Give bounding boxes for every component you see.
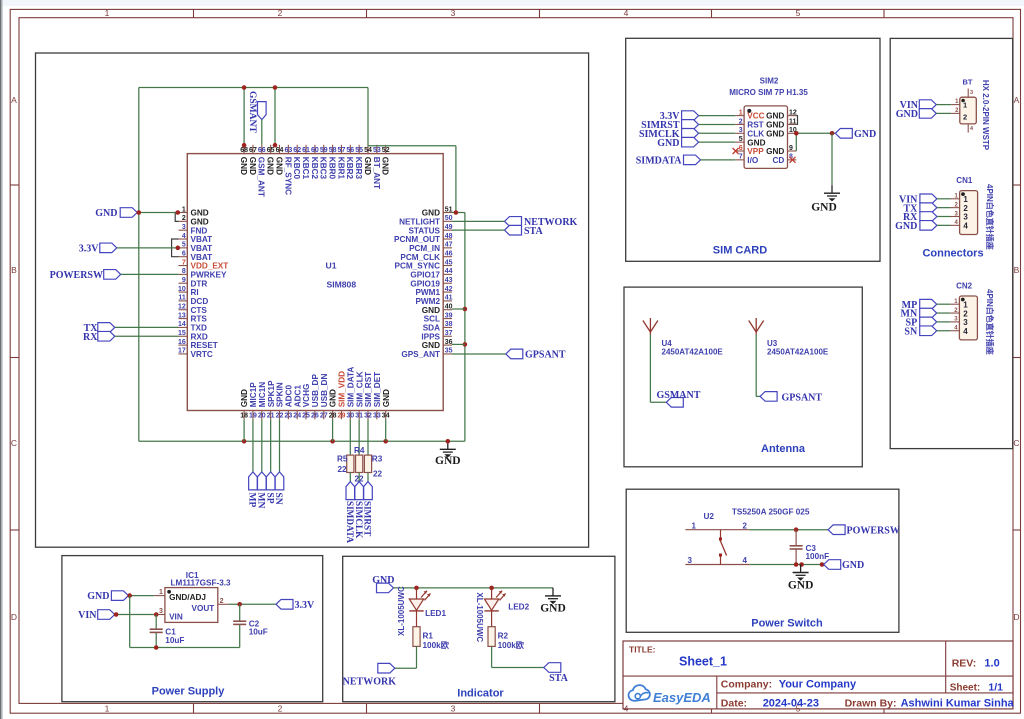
wire U3 to GPSANT flag — [756, 335, 760, 397]
svg-text:GND: GND — [248, 157, 257, 175]
wire U1 pin 51 to right vertical — [452, 212, 465, 214]
wire SIM2 pin 9 bend — [795, 133, 797, 151]
svg-text:KBC0: KBC0 — [292, 157, 301, 180]
wire pin 32 to resistor — [367, 419, 369, 455]
svg-text:VBAT: VBAT — [191, 235, 213, 244]
svg-text:4: 4 — [182, 233, 186, 240]
IC1 pin 1 GND/ADJ — [154, 589, 206, 602]
svg-text:STA: STA — [549, 673, 568, 684]
svg-text:100k欧: 100k欧 — [498, 640, 525, 650]
svg-text:VBAT: VBAT — [191, 253, 213, 262]
U1 pin 35 GPS_ANT — [401, 348, 452, 359]
junction LED2 top — [489, 586, 494, 591]
svg-text:GND: GND — [372, 575, 394, 586]
net flag GND SIM left — [657, 137, 698, 148]
wire MN to CN2 pin 2 — [937, 312, 951, 314]
wire pin 49 to STA flag — [452, 229, 505, 231]
section title Power Switch — [751, 618, 823, 630]
svg-text:B: B — [1014, 265, 1020, 275]
svg-text:Sheet:: Sheet: — [950, 683, 981, 694]
svg-text:3.3V: 3.3V — [295, 600, 316, 611]
wire pin 22 to SN flag — [279, 419, 281, 472]
U1 pin 59 KBC3 — [319, 145, 328, 180]
svg-text:MICRO SIM 7P H1.35: MICRO SIM 7P H1.35 — [729, 88, 808, 97]
svg-text:SN: SN — [273, 493, 283, 505]
svg-text:54: 54 — [364, 147, 372, 154]
switch U2 reference designator — [704, 512, 715, 521]
net flag GND BT — [896, 109, 937, 120]
svg-text:CN1: CN1 — [956, 176, 973, 185]
svg-text:29: 29 — [338, 413, 346, 420]
svg-text:2450AT42A100E: 2450AT42A100E — [767, 348, 829, 357]
svg-text:68: 68 — [240, 147, 248, 154]
svg-text:12: 12 — [789, 109, 797, 116]
LED LED1 — [397, 586, 446, 636]
svg-text:GPIO17: GPIO17 — [410, 270, 440, 279]
junction GND bus pin 28 — [330, 439, 335, 444]
svg-text:Power Switch: Power Switch — [751, 618, 823, 630]
SIM2 pin 9 GND — [766, 145, 796, 156]
svg-text:GND: GND — [766, 112, 784, 121]
svg-text:1: 1 — [182, 206, 186, 213]
resistor R5 — [337, 455, 354, 475]
main module section box — [36, 53, 589, 547]
svg-text:100nF: 100nF — [806, 552, 830, 561]
U1 pin 9 DTR — [179, 277, 208, 288]
svg-text:40: 40 — [445, 304, 453, 311]
resistor R1 — [413, 627, 450, 650]
svg-text:6: 6 — [739, 145, 743, 152]
net flag GND indicator — [372, 575, 394, 593]
svg-text:1: 1 — [159, 589, 163, 596]
svg-text:CLK: CLK — [747, 129, 764, 138]
U1 pin 44 GPIO17 — [410, 268, 452, 279]
svg-text:44: 44 — [445, 268, 453, 275]
svg-text:2450AT42A100E: 2450AT42A100E — [662, 348, 724, 357]
svg-text:GPSANT: GPSANT — [782, 392, 823, 403]
antenna U3 — [749, 318, 764, 335]
wire resistor R3 to SIMRST flag — [367, 473, 369, 482]
svg-text:9: 9 — [789, 145, 793, 152]
svg-text:22: 22 — [276, 413, 284, 420]
svg-text:SIM_CLK: SIM_CLK — [355, 371, 364, 407]
frame column numbers bottom — [105, 704, 801, 714]
wire GND flag to IC1 pin 1 — [128, 595, 153, 597]
svg-text:5: 5 — [182, 242, 186, 249]
svg-text:2: 2 — [963, 309, 968, 318]
svg-text:36: 36 — [445, 339, 453, 346]
junction C1 bottom — [154, 645, 159, 650]
SIM2 value MICRO SIM 7P H1.35 — [729, 88, 808, 97]
svg-text:4PIN白色直针插座: 4PIN白色直针插座 — [985, 289, 995, 355]
svg-text:Ashwini Kumar Sinha: Ashwini Kumar Sinha — [901, 697, 1015, 709]
junction LED1 top — [414, 586, 419, 591]
svg-text:3: 3 — [739, 127, 743, 134]
title block Sheet number — [950, 682, 1003, 694]
junction C2 top — [237, 602, 242, 607]
svg-text:GND: GND — [422, 341, 440, 350]
U1 pin 17 VRTC — [178, 348, 213, 359]
CN1 pin 4 stub — [951, 220, 960, 226]
wire pin 19 to MP flag — [252, 419, 254, 472]
svg-text:3.3V: 3.3V — [79, 243, 100, 254]
junction SIM GND flag — [830, 131, 835, 136]
svg-text:GND: GND — [842, 560, 864, 571]
capacitor C2 — [233, 604, 268, 647]
svg-text:D: D — [11, 612, 17, 622]
U1 pin 30 SIM_DATA — [346, 367, 355, 420]
IC1 value LM1117GSF-3.3 — [171, 578, 232, 587]
svg-text:42: 42 — [445, 286, 453, 293]
BT mounting pins — [968, 89, 974, 133]
wire GND right vertical — [464, 213, 466, 442]
svg-text:TS5250A 250GF 025: TS5250A 250GF 025 — [732, 508, 810, 517]
svg-text:9: 9 — [182, 277, 186, 284]
svg-text:GND: GND — [854, 129, 876, 140]
svg-text:Company:: Company: — [721, 679, 772, 691]
svg-text:25: 25 — [302, 413, 310, 420]
U1 pin 55 KBR3 — [354, 145, 363, 180]
wire pin 34 to bus — [385, 419, 387, 441]
net flag MP CN2 — [902, 299, 937, 310]
net flag SP CN2 — [906, 317, 937, 328]
junction GND bus pin 34 — [383, 439, 388, 444]
frame row letters left — [11, 95, 17, 622]
svg-text:SN: SN — [904, 326, 918, 337]
svg-text:4: 4 — [624, 704, 629, 714]
svg-text:27: 27 — [320, 413, 328, 420]
svg-text:GND: GND — [788, 580, 814, 592]
U1 pin 37 IPPS — [421, 330, 452, 341]
svg-text:1/1: 1/1 — [988, 682, 1003, 694]
svg-text:TXD: TXD — [191, 324, 207, 333]
svg-text:GND: GND — [329, 389, 338, 407]
title block TITLE label — [629, 645, 656, 655]
junction VIN flag PS — [114, 612, 119, 617]
net flag 3.3V power supply — [276, 600, 315, 611]
Power Switch section box — [626, 489, 899, 632]
U1 pin 41 PWM2 — [415, 295, 452, 306]
svg-text:R3: R3 — [372, 455, 383, 464]
svg-text:GPS_ANT: GPS_ANT — [401, 350, 440, 359]
svg-text:17: 17 — [178, 348, 186, 355]
svg-text:2: 2 — [220, 598, 224, 605]
svg-text:GND: GND — [422, 306, 440, 315]
bracket joining U1 pins 1-2 — [175, 213, 178, 222]
net flag SIMRST — [363, 482, 373, 537]
svg-text:BT: BT — [963, 78, 973, 87]
section title Indicator — [457, 688, 504, 700]
CN2 reference designator — [956, 282, 973, 291]
title block REV — [952, 658, 1000, 670]
wire 3.3V to SIM2 pin 1 — [699, 115, 736, 117]
svg-text:1: 1 — [963, 300, 968, 309]
svg-text:A: A — [1014, 95, 1020, 105]
BT pin 2 stub — [951, 108, 960, 114]
LED LED2 — [475, 588, 530, 643]
bracket joining SIM2 pins 12-11 — [796, 116, 797, 125]
wire TX flag to pin 14 — [115, 326, 179, 328]
BT reference designator — [963, 78, 973, 87]
junction GND flag PS — [127, 593, 132, 598]
svg-text:11: 11 — [178, 295, 186, 302]
U1 pin 65 GND — [266, 145, 275, 175]
BT value HX 2.0-2PIN WSTP — [981, 80, 990, 151]
svg-text:GND: GND — [382, 389, 391, 407]
switch U2 — [685, 521, 749, 565]
svg-text:Your Company: Your Company — [779, 679, 857, 691]
svg-text:24: 24 — [293, 413, 301, 420]
junction pin 5 — [176, 246, 181, 251]
U1 pin 40 GND — [422, 304, 453, 315]
svg-text:26: 26 — [311, 413, 319, 420]
wire pin 36 stub join — [452, 343, 465, 345]
U1 pin 67 GND — [248, 145, 257, 175]
U1 pin 22 SPKIN — [276, 382, 285, 420]
svg-text:SPK1P: SPK1P — [267, 380, 276, 407]
svg-text:SIM_DATA: SIM_DATA — [346, 367, 355, 408]
U1 pin 51 GND — [422, 206, 453, 217]
svg-text:SP: SP — [264, 493, 274, 504]
net flag GPSANT right — [506, 349, 566, 360]
svg-text:3: 3 — [688, 556, 693, 565]
EasyEDA logo — [629, 685, 711, 705]
svg-text:PCM_IN: PCM_IN — [409, 244, 440, 253]
svg-text:TITLE:: TITLE: — [629, 645, 656, 655]
U1 pin 3 FND — [179, 224, 208, 235]
wire rail to ground indicator — [552, 587, 554, 589]
svg-text:66: 66 — [258, 147, 266, 154]
net flag GND switch — [824, 560, 865, 571]
svg-text:FND: FND — [191, 226, 208, 235]
U1 pin 27 USB_DN — [320, 374, 329, 420]
net flag SN — [273, 472, 284, 505]
net flag GND SIM right — [835, 129, 876, 140]
U1 pin 63 RF_SYNC — [283, 145, 292, 195]
wire GND left vertical — [138, 88, 140, 442]
net flag RX CN1 — [903, 212, 937, 223]
svg-text:59: 59 — [320, 147, 328, 154]
U1 pin 1 GND — [179, 206, 209, 217]
U1 pin 57 KBR1 — [336, 145, 345, 180]
U1 pin 52 GND — [381, 145, 390, 175]
svg-text:GND: GND — [766, 147, 784, 156]
svg-text:KBR3: KBR3 — [354, 157, 363, 180]
svg-text:VIN: VIN — [78, 610, 97, 621]
U1 pin 10 RI — [178, 286, 199, 297]
wire drop to U1 pin 65 — [274, 88, 276, 145]
svg-text:KBC3: KBC3 — [319, 157, 328, 180]
svg-text:1: 1 — [963, 195, 968, 204]
svg-text:100k欧: 100k欧 — [423, 640, 450, 650]
svg-text:SIMDATA: SIMDATA — [636, 155, 683, 166]
net flag SN CN2 — [904, 326, 936, 337]
svg-text:B: B — [11, 265, 17, 275]
svg-text:C: C — [11, 438, 17, 448]
svg-text:41: 41 — [445, 295, 453, 302]
svg-text:ADC0: ADC0 — [284, 385, 293, 408]
svg-text:55: 55 — [355, 147, 363, 154]
svg-text:1: 1 — [105, 8, 110, 18]
CN1 pin 2 stub — [951, 202, 960, 208]
U3 reference designator — [767, 339, 778, 348]
svg-text:LED2: LED2 — [508, 603, 529, 612]
CN2 pin 1 stub — [950, 299, 959, 305]
net flag 3.3V left — [79, 243, 117, 254]
U1 pin 42 PWM1 — [415, 286, 452, 297]
svg-text:STATUS: STATUS — [408, 226, 440, 235]
svg-text:19: 19 — [249, 413, 257, 420]
svg-text:R1: R1 — [423, 632, 434, 641]
svg-text:65: 65 — [267, 147, 275, 154]
svg-text:1: 1 — [692, 521, 697, 530]
svg-text:DCD: DCD — [191, 297, 209, 306]
svg-text:MIC1N: MIC1N — [258, 382, 267, 408]
svg-text:R5: R5 — [337, 455, 348, 464]
U1 pin 43 GPIO19 — [410, 277, 452, 288]
svg-text:GND: GND — [895, 221, 917, 232]
ground symbol SIM — [811, 185, 840, 213]
svg-text:2: 2 — [278, 8, 283, 18]
svg-text:2024-04-23: 2024-04-23 — [763, 697, 819, 709]
Connectors section box — [890, 38, 1013, 448]
svg-text:43: 43 — [445, 277, 453, 284]
svg-text:46: 46 — [445, 251, 453, 258]
wire pin 18 to bus — [243, 419, 245, 441]
svg-text:SDA: SDA — [423, 324, 440, 333]
svg-text:51: 51 — [445, 206, 453, 213]
section title Power Supply — [152, 686, 226, 698]
U1 pin 19 MIC1P — [249, 382, 258, 420]
junction at pin 65 top — [273, 85, 278, 147]
svg-text:GND: GND — [657, 138, 679, 149]
wire GSMANT flag to pin 66 — [261, 120, 263, 145]
U1 pin 28 GND — [329, 389, 338, 420]
svg-text:10uF: 10uF — [165, 636, 184, 645]
junction at pin 40 — [463, 307, 468, 312]
svg-text:VCC: VCC — [747, 112, 764, 121]
svg-text:11: 11 — [789, 118, 797, 125]
svg-text:5: 5 — [796, 8, 801, 18]
svg-text:GND: GND — [811, 202, 837, 214]
svg-text:38: 38 — [445, 321, 453, 328]
svg-text:4: 4 — [743, 556, 748, 565]
svg-text:DTR: DTR — [191, 279, 208, 288]
U1 pin 62 KBC0 — [292, 145, 301, 180]
U1 pin 49 STATUS — [408, 224, 452, 235]
svg-text:53: 53 — [373, 147, 381, 154]
net flag GND power supply — [87, 591, 128, 602]
SIM2 pin 3 CLK — [735, 127, 764, 138]
svg-text:10: 10 — [178, 286, 186, 293]
U1 pin 21 SPK1P — [267, 380, 276, 420]
svg-text:GND: GND — [766, 121, 784, 130]
U1 value SIM808 — [327, 280, 357, 290]
svg-text:SIM CARD: SIM CARD — [713, 245, 767, 257]
net flag POWERSW — [50, 270, 121, 281]
U1 pin 39 SCL — [424, 312, 453, 323]
svg-text:2: 2 — [182, 215, 186, 222]
SIM2 pin 7 I/O — [735, 154, 759, 165]
U1 pin 11 DCD — [178, 295, 208, 306]
svg-text:USB_DP: USB_DP — [311, 374, 320, 408]
SIM2 pin 12 GND — [766, 109, 797, 120]
svg-text:CD: CD — [772, 156, 784, 165]
wire U2 pin 4 to GND — [750, 564, 824, 566]
svg-text:PWRKEY: PWRKEY — [191, 270, 227, 279]
svg-text:3: 3 — [963, 318, 968, 327]
U1 pin 23 ADC0 — [284, 385, 293, 420]
IC1 reference designator — [186, 571, 199, 580]
svg-text:23: 23 — [284, 413, 292, 420]
svg-text:POWERSW: POWERSW — [847, 525, 900, 536]
svg-text:GSMANT: GSMANT — [657, 390, 701, 401]
wire pin 50 to NETWORK flag — [452, 220, 505, 222]
svg-text:PWM1: PWM1 — [415, 288, 440, 297]
svg-text:50: 50 — [445, 215, 453, 222]
U1 pin 61 KBC1 — [301, 145, 310, 180]
U1 pin 56 KBR2 — [345, 145, 354, 180]
IC1 pin 2 VOUT — [192, 598, 229, 613]
bracket joining U1 pins 4-6 — [172, 239, 179, 257]
net flag GSMANT top — [247, 91, 266, 133]
wire pin 20 to MN flag — [261, 419, 263, 472]
U1 pin 14 TXD — [178, 321, 207, 332]
svg-text:31: 31 — [355, 413, 363, 420]
net flag 3.3V SIM — [660, 111, 699, 122]
U1 pin 33 SIM_DET — [373, 372, 382, 420]
svg-text:3: 3 — [970, 90, 973, 96]
resistor R2 — [488, 627, 525, 650]
svg-text:3: 3 — [451, 704, 456, 714]
wire VOUT to 3.3V flag — [229, 603, 276, 605]
BT pin 1 stub — [951, 99, 960, 105]
svg-text:62: 62 — [293, 147, 301, 154]
U1 pin 54 GND — [363, 145, 372, 175]
U1 pin 66 GSM_ANT — [257, 145, 266, 197]
svg-text:2: 2 — [963, 204, 968, 213]
U1 pin 60 KBC2 — [310, 145, 319, 180]
svg-text:GSMANT: GSMANT — [247, 91, 257, 133]
svg-text:GND: GND — [240, 389, 249, 407]
wire SIMRST to SIM2 pin 2 — [699, 123, 736, 125]
wire pin 28 to bus — [332, 419, 334, 441]
svg-text:GND: GND — [896, 109, 918, 120]
capacitor C1 — [150, 615, 185, 648]
junction C1 top — [154, 612, 159, 617]
connector CN2 body — [959, 296, 977, 340]
svg-text:MN: MN — [255, 493, 265, 509]
svg-text:34: 34 — [382, 413, 390, 420]
U1 pin 24 ADC1 — [293, 385, 302, 420]
svg-text:63: 63 — [284, 147, 292, 154]
svg-text:KBC1: KBC1 — [301, 157, 310, 180]
U1 pin 34 GND — [382, 389, 391, 420]
svg-text:GND/ADJ: GND/ADJ — [169, 593, 206, 602]
wire indicator top rail — [394, 587, 554, 589]
wire RX to CN1 pin 3 — [937, 216, 951, 218]
svg-text:4: 4 — [963, 327, 968, 336]
net flag VIN power supply — [78, 610, 115, 621]
svg-text:5: 5 — [739, 136, 743, 143]
svg-text:RF_SYNC: RF_SYNC — [283, 157, 292, 195]
junction ground symbol main — [446, 439, 451, 444]
svg-text:48: 48 — [445, 233, 453, 240]
svg-text:64: 64 — [276, 147, 284, 154]
U1 pin 6 VBAT — [179, 251, 213, 262]
Indicator section box — [343, 556, 615, 701]
U1 pin 12 CTS — [178, 304, 207, 315]
